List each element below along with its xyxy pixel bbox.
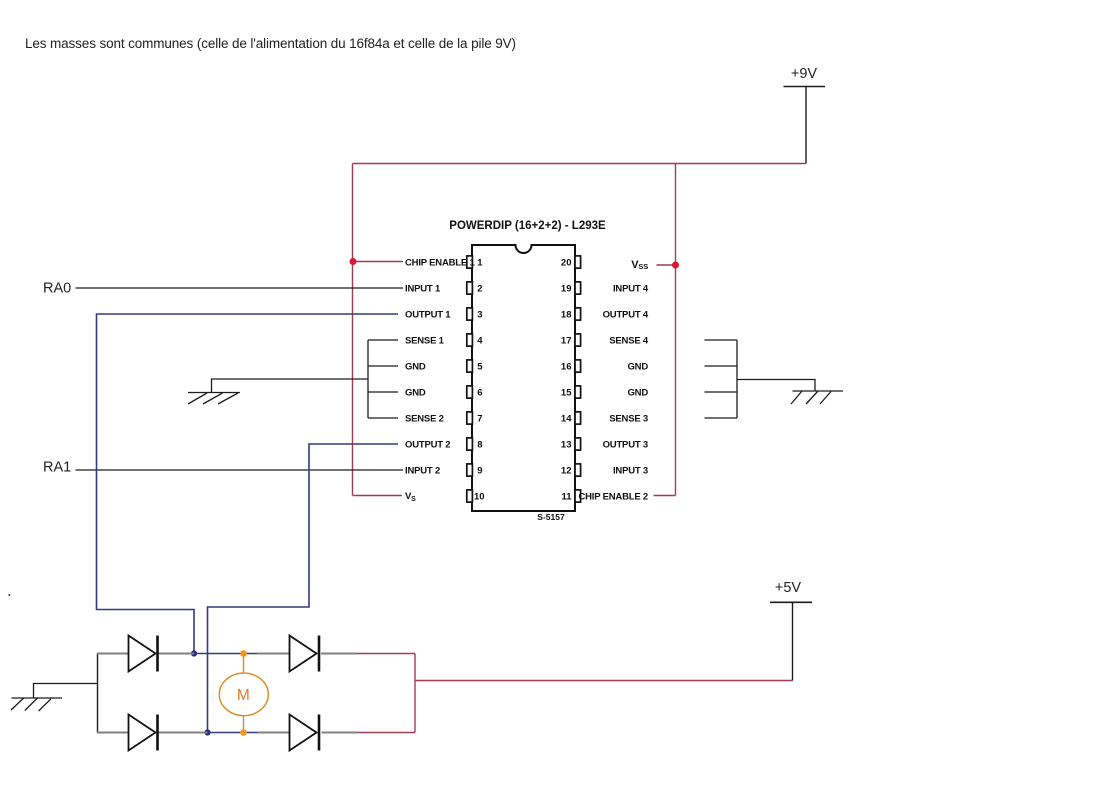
svg-text:INPUT 4: INPUT 4 [613, 283, 649, 294]
wire left sense/gnd bus [212, 340, 399, 418]
junction dot motor bottom [240, 729, 247, 736]
svg-text:15: 15 [561, 387, 572, 398]
svg-text:SENSE 2: SENSE 2 [405, 413, 444, 424]
junction dot bottom rail navy [204, 729, 210, 735]
IC U1 right pin labels [578, 259, 648, 502]
svg-text:9: 9 [477, 465, 482, 476]
wire +9V net top (red) [353, 163, 807, 165]
pin 18 pad [575, 308, 581, 320]
svg-text:1: 1 [477, 257, 483, 268]
IC U1 L293E body [472, 245, 575, 511]
stray dot [8, 594, 10, 596]
ground symbol left-middle [188, 393, 240, 405]
svg-text:+5V: +5V [775, 580, 802, 596]
svg-text:CHIP ENABLE 2: CHIP ENABLE 2 [578, 491, 648, 502]
svg-text:Les masses sont communes (cell: Les masses sont communes (celle de l'ali… [25, 36, 516, 51]
IC U1 left pin labels [405, 257, 475, 503]
diode D2 bottom-left [129, 715, 158, 751]
pin 8 pad [467, 438, 473, 450]
svg-text:RA0: RA0 [43, 281, 71, 297]
svg-text:17: 17 [561, 335, 572, 346]
wire OUTPUT 1 (navy) [97, 314, 399, 654]
svg-text:INPUT 2: INPUT 2 [405, 465, 440, 476]
svg-text:13: 13 [561, 439, 572, 450]
svg-text:19: 19 [561, 283, 572, 294]
IC U1 pins right side [561, 256, 581, 503]
svg-text:M: M [237, 687, 250, 704]
supply +9V symbol [784, 66, 826, 87]
svg-text:6: 6 [477, 387, 482, 398]
svg-text:INPUT 1: INPUT 1 [405, 283, 441, 294]
svg-text:SENSE 3: SENSE 3 [609, 413, 648, 424]
pin 12 pad [575, 464, 581, 476]
svg-text:5: 5 [477, 361, 483, 372]
svg-text:SENSE 4: SENSE 4 [609, 335, 649, 346]
ground symbol right [791, 391, 843, 404]
wire RA1 to INPUT 2 [76, 469, 404, 471]
junction dot node Vss [672, 262, 679, 269]
svg-text:GND: GND [627, 387, 648, 398]
pin 14 pad [575, 412, 581, 424]
pin 1 pad [467, 256, 473, 268]
pin 7 pad [467, 412, 473, 424]
pin 15 pad [575, 386, 581, 398]
wire red stub CHIP ENABLE 2 [654, 495, 676, 497]
pin 16 pad [575, 360, 581, 372]
svg-text:+9V: +9V [791, 66, 818, 82]
svg-text:GND: GND [405, 387, 426, 398]
wire red stub Vss pin20 [657, 264, 676, 266]
pin 10 pad [467, 490, 473, 502]
wire top rail segments [97, 653, 359, 655]
pin 2 pad [467, 282, 473, 294]
supply +5V symbol [770, 580, 812, 602]
pin 6 pad [467, 386, 473, 398]
svg-text:18: 18 [561, 309, 572, 320]
wire red stub Vs pin10 [353, 495, 403, 497]
pin 3 pad [467, 308, 473, 320]
svg-text:3: 3 [477, 309, 482, 320]
IC U1 pins left side [467, 256, 485, 503]
pin 13 pad [575, 438, 581, 450]
svg-text:POWERDIP (16+2+2) - L293E: POWERDIP (16+2+2) - L293E [449, 220, 606, 232]
pin 20 pad [575, 256, 581, 268]
svg-text:10: 10 [474, 491, 485, 502]
diode D1 top-left [129, 636, 158, 672]
svg-text:12: 12 [561, 465, 572, 476]
motor M orange stubs [243, 654, 245, 733]
wire bottom rail segments [97, 732, 359, 734]
pin 17 pad [575, 334, 581, 346]
pin 19 pad [575, 282, 581, 294]
svg-text:SENSE 1: SENSE 1 [405, 335, 445, 346]
svg-text:OUTPUT 2: OUTPUT 2 [405, 439, 450, 450]
junction dot top rail navy [191, 650, 197, 656]
pin 5 pad [467, 360, 473, 372]
svg-text:S-5157: S-5157 [537, 512, 565, 522]
junction dot motor top [240, 650, 247, 657]
wire red left vertical [352, 164, 354, 496]
wire +9V vertical [805, 87, 807, 164]
wire right sense/gnd bus [705, 340, 816, 418]
wire OUTPUT 2 (navy) [208, 444, 399, 733]
svg-text:16: 16 [561, 361, 572, 372]
svg-text:7: 7 [477, 413, 482, 424]
svg-text:8: 8 [477, 439, 482, 450]
svg-text:20: 20 [561, 257, 572, 268]
junction dot node CHIP ENABLE 1 [350, 258, 357, 265]
wire red bracket right of bridge [359, 654, 793, 733]
motor M1 [219, 673, 268, 716]
svg-text:14: 14 [561, 413, 572, 424]
wire red right vertical [675, 164, 677, 496]
diode D4 bottom-right [290, 715, 320, 751]
svg-text:CHIP ENABLE 1: CHIP ENABLE 1 [405, 257, 475, 268]
pin 11 pad [575, 490, 581, 502]
svg-text:OUTPUT 3: OUTPUT 3 [603, 439, 648, 450]
diode D3 top-right [290, 636, 320, 672]
wire +5V vertical [792, 602, 794, 680]
svg-text:OUTPUT 4: OUTPUT 4 [603, 309, 649, 320]
wire H-bridge left vertical [97, 654, 99, 733]
wire red stub CHIP ENABLE 1 [353, 261, 404, 263]
wire RA0 to INPUT 1 [76, 287, 404, 289]
pin 9 pad [467, 464, 473, 476]
svg-text:GND: GND [627, 361, 648, 372]
svg-text:4: 4 [477, 335, 483, 346]
pin 4 pad [467, 334, 473, 346]
svg-text:OUTPUT 1: OUTPUT 1 [405, 309, 451, 320]
svg-text:11: 11 [561, 491, 572, 502]
svg-text:RA1: RA1 [43, 460, 71, 476]
svg-text:INPUT 3: INPUT 3 [613, 465, 648, 476]
ground symbol bottom-left [11, 684, 98, 712]
svg-text:GND: GND [405, 361, 426, 372]
svg-text:2: 2 [477, 283, 482, 294]
